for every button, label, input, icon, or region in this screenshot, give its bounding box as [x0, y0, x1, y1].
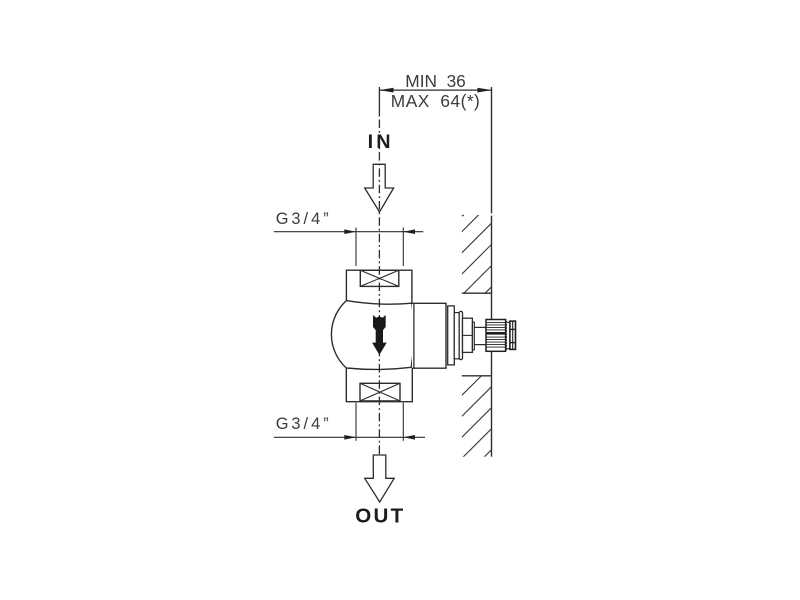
bottom G3/4 extension line left — [355, 403, 357, 441]
top G3/4 right arrowhead — [403, 229, 415, 234]
bottom G3/4 extension line right — [402, 403, 404, 441]
svg-text:G3/4”: G3/4” — [276, 415, 332, 433]
end-cap bracket — [506, 322, 510, 348]
MIN/MAX dimension line — [379, 89, 491, 91]
cartridge face strip — [472, 322, 474, 350]
knob serrated edge — [506, 321, 507, 351]
top G3/4 extension line left — [355, 228, 357, 267]
bottom G3/4 right arrowhead — [403, 435, 415, 440]
wall lower hatch block — [462, 366, 492, 480]
bottom G3/4 dimension line — [274, 436, 425, 438]
cartridge cylinder mid line — [463, 334, 473, 336]
seal disk — [459, 311, 462, 359]
bonnet neck — [454, 313, 459, 359]
IN flow arrow (hollow) — [365, 164, 394, 212]
valve top flange — [346, 270, 412, 303]
centerline solid lead-in — [378, 87, 380, 117]
top port X-box — [360, 270, 399, 286]
valve bottom flange — [346, 367, 412, 401]
MIN/MAX left arrowhead — [379, 88, 393, 93]
bonnet large cylinder — [412, 303, 446, 368]
top G3/4 extension line right — [402, 228, 404, 267]
top G3/4 dimension line — [274, 231, 424, 233]
wall upper hatch block — [462, 202, 492, 338]
top port X diagonals — [360, 270, 399, 286]
wall upper hatch tick — [462, 214, 464, 217]
wall opening bottom edge — [462, 375, 492, 377]
black flow direction arrow inside body — [373, 316, 387, 355]
OUT flow arrow (hollow) — [365, 455, 395, 502]
top G3/4 left arrowhead — [344, 229, 356, 234]
bottom port X diagonals — [360, 383, 400, 401]
bonnet ring — [448, 306, 455, 365]
bottom G3/4 left arrowhead — [344, 435, 356, 440]
stem shaft — [474, 327, 486, 344]
valve body outline — [331, 301, 413, 370]
end cap — [510, 321, 516, 349]
wall face line (middle segment) — [491, 216, 493, 320]
wall face line (upper segment, also MIN/MAX right extension) — [491, 87, 493, 213]
svg-text:IN: IN — [368, 131, 394, 153]
wall face line (lower segment) — [491, 351, 493, 456]
MIN/MAX right arrowhead — [477, 88, 491, 93]
svg-text:OUT: OUT — [355, 505, 405, 528]
bottom port X-box — [360, 383, 400, 401]
splined adjuster knob — [486, 320, 506, 352]
cartridge cylinder — [463, 318, 473, 352]
wall opening top edge — [462, 292, 492, 294]
centerline dash-dot — [378, 120, 380, 456]
svg-text:G3/4”: G3/4” — [276, 210, 332, 228]
svg-text:MIN 36: MIN 36 — [405, 71, 466, 91]
svg-text:MAX 64(*): MAX 64(*) — [391, 91, 481, 111]
